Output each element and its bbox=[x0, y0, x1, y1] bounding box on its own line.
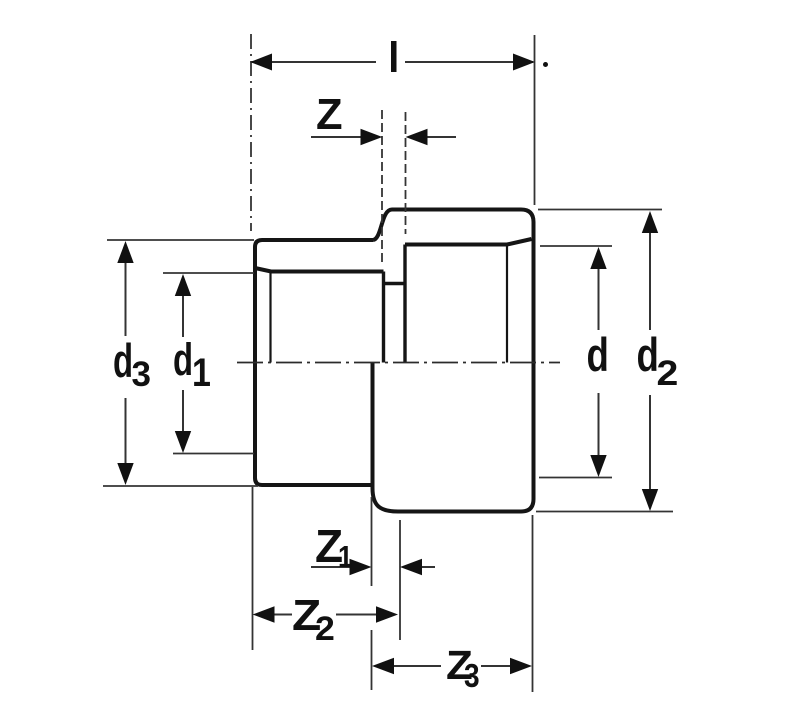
svg-text:2: 2 bbox=[657, 353, 679, 393]
svg-text:d: d bbox=[113, 334, 133, 387]
svg-text:3: 3 bbox=[132, 355, 151, 394]
svg-text:3: 3 bbox=[464, 658, 480, 695]
svg-text:2: 2 bbox=[315, 610, 335, 648]
svg-text:1: 1 bbox=[192, 349, 211, 394]
svg-text:Z: Z bbox=[316, 91, 343, 139]
svg-text:d: d bbox=[587, 329, 609, 381]
svg-text:d: d bbox=[173, 335, 193, 385]
svg-text:1: 1 bbox=[338, 540, 353, 574]
